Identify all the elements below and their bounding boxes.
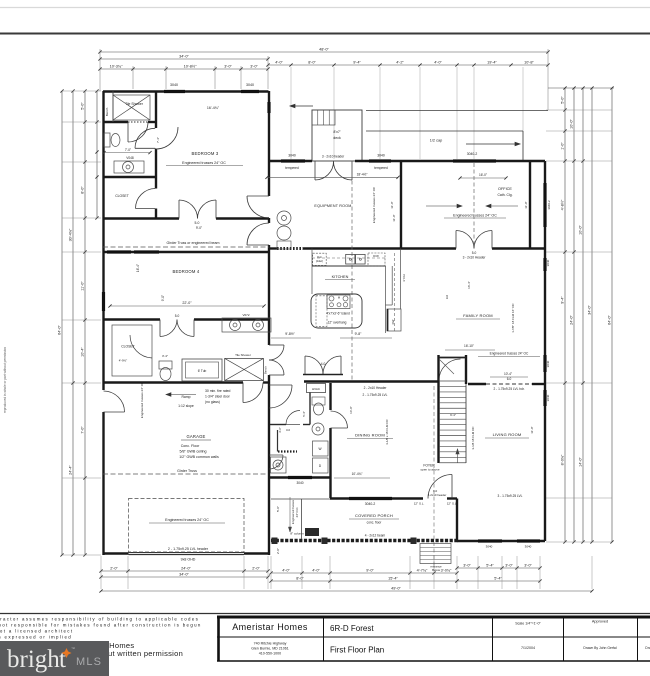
svg-text:open to above: open to above (420, 468, 439, 472)
svg-text:5-0: 5-0 (472, 251, 477, 255)
svg-text:reproduced in whole or part wi: reproduced in whole or part without perm… (3, 347, 7, 413)
svg-text:9'-4": 9'-4" (560, 296, 564, 304)
svg-text:2'-0": 2'-0" (110, 566, 118, 570)
svg-text:Engineered trusses 24" OC: Engineered trusses 24" OC (165, 518, 209, 522)
svg-text:Ameristar Homes: Ameristar Homes (232, 622, 308, 632)
svg-text:4'-2": 4'-2" (396, 60, 404, 64)
svg-text:Ref: Ref (391, 320, 395, 325)
svg-text:9'-4": 9'-4" (353, 60, 361, 64)
svg-text:4'-9½": 4'-9½" (119, 359, 127, 363)
svg-text:D/W: D/W (373, 254, 379, 258)
svg-text:4'-0": 4'-0" (434, 60, 442, 64)
svg-text:OFFICE: OFFICE (498, 187, 512, 191)
svg-text:740 Ritchie Highway: 740 Ritchie Highway (254, 642, 287, 646)
svg-text:3040-2: 3040-2 (365, 502, 376, 506)
svg-text:24'-4": 24'-4" (68, 465, 72, 475)
svg-text:7'-4": 7'-4" (156, 137, 160, 143)
svg-text:MLS: MLS (76, 656, 102, 668)
svg-text:2 - 1.75x9.25 LVL hdr.: 2 - 1.75x9.25 LVL hdr. (493, 387, 524, 391)
svg-text:1-7/8" 18 FLM 16" OC: 1-7/8" 18 FLM 16" OC (511, 302, 515, 332)
svg-text:3'-0": 3'-0" (505, 563, 513, 567)
svg-text:9'-0": 9'-0" (366, 568, 374, 572)
svg-text:3'-0¾": 3'-0¾" (441, 568, 452, 572)
svg-text:2'-0": 2'-0" (276, 548, 280, 554)
svg-text:HVAC: HVAC (312, 387, 321, 391)
svg-text:9'-0": 9'-0" (196, 226, 202, 230)
svg-text:24'-0": 24'-0" (569, 315, 573, 325)
svg-text:3' OH: 3' OH (402, 274, 406, 282)
svg-text:First Floor Plan: First Floor Plan (330, 646, 384, 655)
svg-text:tempered: tempered (374, 166, 388, 170)
svg-text:30 min. fire rated: 30 min. fire rated (205, 389, 231, 393)
svg-text:1'-0": 1'-0" (560, 142, 564, 150)
svg-text:9x8 OHD: 9x8 OHD (181, 558, 196, 562)
svg-text:Engineered trusses 24" OC: Engineered trusses 24" OC (490, 352, 529, 356)
svg-text:V072: V072 (242, 313, 249, 317)
svg-text:11'-0": 11'-0" (80, 281, 84, 291)
svg-text:11'-0": 11'-0" (524, 201, 528, 208)
svg-text:4'-8½": 4'-8½" (560, 199, 564, 210)
svg-text:10'-0": 10'-0" (569, 119, 573, 129)
svg-text:conc. floor: conc. floor (367, 521, 383, 525)
svg-text:5-0: 5-0 (175, 314, 180, 318)
svg-text:34'-0": 34'-0" (587, 305, 591, 315)
svg-text:3040: 3040 (525, 545, 532, 549)
svg-text:24" O.C.: 24" O.C. (295, 506, 299, 517)
svg-text:7'-0": 7'-0" (125, 148, 131, 152)
svg-text:4 - 2x12 beam: 4 - 2x12 beam (365, 534, 386, 538)
svg-text:GARAGE: GARAGE (186, 434, 205, 439)
svg-text:3'-6": 3'-6" (278, 427, 282, 433)
svg-text:5'-0": 5'-0" (276, 506, 280, 512)
svg-text:8'-0": 8'-0" (296, 576, 304, 580)
svg-text:BEDROOM 4: BEDROOM 4 (173, 269, 200, 274)
svg-text:48'-0": 48'-0" (319, 47, 329, 51)
svg-text:KITCHEN: KITCHEN (332, 275, 349, 279)
svg-text:LIVING ROOM: LIVING ROOM (493, 432, 522, 437)
svg-text:64'-0": 64'-0" (57, 325, 61, 335)
svg-text:5'-4": 5'-4" (494, 576, 502, 580)
svg-text:22'-0": 22'-0" (182, 301, 192, 305)
svg-text:M: M (338, 296, 340, 300)
svg-text:2-2x10 header: 2-2x10 header (428, 493, 447, 497)
svg-text:Girder Truss: Girder Truss (177, 469, 197, 473)
svg-text:3040-2: 3040-2 (467, 152, 478, 156)
svg-text:CLOSET: CLOSET (115, 194, 129, 198)
svg-text:Scale 1/4"=1'-0": Scale 1/4"=1'-0" (515, 622, 541, 626)
svg-text:deck: deck (333, 136, 341, 140)
svg-text:4'-0": 4'-0" (312, 568, 320, 572)
svg-text:5'-4": 5'-4" (302, 411, 306, 417)
svg-text:t: t (59, 646, 66, 673)
svg-text:11'-0": 11'-0" (392, 214, 396, 221)
svg-text:tempered: tempered (285, 166, 299, 170)
svg-text:2 - 1.75x9.25 LVL header: 2 - 1.75x9.25 LVL header (168, 547, 209, 551)
svg-text:12" S.L.: 12" S.L. (447, 502, 458, 506)
svg-text:3040-2: 3040-2 (547, 200, 551, 210)
svg-text:s not a licensed architect: s not a licensed architect (0, 629, 73, 634)
svg-text:5'-0": 5'-0" (560, 96, 564, 104)
svg-text:16'-10": 16'-10" (464, 344, 474, 348)
svg-text:3040: 3040 (546, 394, 550, 401)
svg-text:49'-0": 49'-0" (391, 586, 401, 590)
svg-text:EQUIPMENT ROOM: EQUIPMENT ROOM (314, 204, 351, 208)
svg-text:COVERED PORCH: COVERED PORCH (355, 513, 393, 518)
svg-text:14'-0": 14'-0" (578, 457, 582, 467)
svg-text:3040: 3040 (170, 83, 178, 87)
svg-text:3'-0": 3'-0" (524, 563, 532, 567)
svg-text:16'-4": 16'-4" (136, 264, 140, 272)
svg-text:9'-0": 9'-0" (161, 295, 165, 301)
svg-text:10'-8": 10'-8" (524, 60, 534, 64)
svg-text:3-1/8 18 FLM OC: 3-1/8 18 FLM OC (471, 426, 475, 450)
svg-text:10'-4¾": 10'-4¾" (352, 472, 363, 476)
svg-text:10'-8½": 10'-8½" (184, 64, 197, 68)
svg-text:11'-0": 11'-0" (530, 426, 534, 433)
svg-text:10'-4": 10'-4" (504, 372, 512, 376)
svg-text:24'-0": 24'-0" (181, 566, 191, 570)
svg-text:8'-0": 8'-0" (308, 60, 316, 64)
svg-text:12" S.L.: 12" S.L. (414, 502, 425, 506)
svg-text:Engineered trusses 24" OC: Engineered trusses 24" OC (182, 161, 226, 165)
svg-text:Conc. Floor: Conc. Floor (181, 444, 200, 448)
svg-text:4'-7¾": 4'-7¾" (417, 568, 428, 572)
svg-text:Dra: Dra (645, 646, 650, 650)
svg-text:64'-0": 64'-0" (607, 315, 611, 325)
svg-text:11'-0": 11'-0" (390, 201, 394, 208)
svg-text:Bench: Bench (105, 107, 109, 116)
svg-text:Engineered trusses 24" OC: Engineered trusses 24" OC (140, 381, 144, 418)
svg-text:18'-4½": 18'-4½" (357, 173, 368, 177)
svg-text:3'-0": 3'-0" (463, 563, 471, 567)
svg-text:9'-8½": 9'-8½" (285, 332, 295, 336)
svg-text:15'-4": 15'-4" (388, 576, 398, 580)
svg-text:™: ™ (71, 646, 75, 651)
svg-text:6-0: 6-0 (507, 377, 512, 381)
svg-text:3040: 3040 (486, 545, 493, 549)
svg-text:8'x7': 8'x7' (333, 130, 340, 134)
svg-text:7/1/2004: 7/1/2004 (521, 646, 535, 650)
svg-text:Ovn: Ovn (317, 255, 323, 259)
svg-text:y is expressed or implied: y is expressed or implied (0, 635, 72, 640)
svg-text:Below: Below (432, 568, 441, 572)
svg-text:16'-4¾": 16'-4¾" (207, 106, 220, 110)
svg-text:Drawn By John Gerfal: Drawn By John Gerfal (583, 646, 616, 650)
svg-text:V048: V048 (126, 156, 134, 160)
svg-text:4-0: 4-0 (321, 362, 326, 366)
svg-text:5'-0": 5'-0" (80, 102, 84, 110)
svg-text:ontractor assumes responsibili: ontractor assumes responsibility of buil… (0, 617, 199, 622)
svg-text:2'-0": 2'-0" (252, 566, 260, 570)
svg-text:Engineered trusses 24" OC: Engineered trusses 24" OC (453, 214, 497, 218)
svg-text:1-3/4" steel door: 1-3/4" steel door (205, 395, 231, 399)
svg-text:10'-3¾": 10'-3¾" (110, 64, 123, 68)
svg-text:5-0: 5-0 (195, 221, 200, 225)
svg-text:3040: 3040 (546, 259, 550, 266)
svg-text:9-0: 9-0 (445, 295, 449, 300)
svg-text:5'-4": 5'-4" (486, 563, 494, 567)
svg-text:BEDROOM 3: BEDROOM 3 (192, 151, 219, 156)
svg-text:410-550-1000: 410-550-1000 (259, 652, 281, 656)
svg-text:6' Tub: 6' Tub (198, 369, 207, 373)
svg-text:8" column: 8" column (290, 532, 304, 536)
svg-text:14'-0": 14'-0" (349, 406, 353, 414)
svg-text:6R-D Forest: 6R-D Forest (330, 624, 374, 633)
svg-text:4'x7'x3'-6" island: 4'x7'x3'-6" island (326, 312, 350, 316)
svg-text:10'-4": 10'-4" (80, 347, 84, 357)
svg-text:10'-0": 10'-0" (578, 225, 582, 235)
svg-text:4'-0": 4'-0" (275, 60, 283, 64)
svg-text:Engineered trusses 24" OC: Engineered trusses 24" OC (372, 186, 376, 223)
svg-text:1:12 slope: 1:12 slope (178, 404, 194, 408)
svg-text:3040: 3040 (546, 360, 550, 367)
svg-text:3040: 3040 (288, 154, 296, 158)
svg-text:Tile Shower: Tile Shower (235, 353, 251, 357)
svg-text:3 - 2x10 Header: 3 - 2x10 Header (463, 256, 487, 260)
svg-text:1/2" GWB common walls: 1/2" GWB common walls (179, 455, 219, 459)
svg-text:2 - 1.75x9.25 LVL: 2 - 1.75x9.25 LVL (363, 393, 388, 397)
svg-text:3040: 3040 (296, 481, 303, 485)
svg-text:3'-0": 3'-0" (250, 64, 258, 68)
svg-text:16'-4": 16'-4" (467, 281, 471, 289)
svg-text:3 - 2x10 header: 3 - 2x10 header (322, 155, 345, 159)
svg-text:5/8" GWB ceiling: 5/8" GWB ceiling (179, 450, 206, 454)
svg-text:7'-0": 7'-0" (80, 426, 84, 434)
svg-text:3-1/8 x 18 FLM OC: 3-1/8 x 18 FLM OC (385, 418, 389, 444)
svg-text:W: W (318, 447, 321, 451)
svg-text:30'-4¾": 30'-4¾" (68, 228, 72, 241)
svg-text:(no glass): (no glass) (205, 400, 220, 404)
svg-text:3040: 3040 (246, 83, 254, 87)
svg-text:12" overhang: 12" overhang (328, 321, 347, 325)
svg-text:3 - 1.75x9.25 LVL: 3 - 1.75x9.25 LVL (498, 494, 523, 498)
svg-text:19'-4": 19'-4" (487, 60, 497, 64)
svg-text:3'-4": 3'-4" (162, 354, 168, 358)
svg-text:is not responsible for mistake: is not responsible for mistakes found af… (0, 623, 202, 628)
svg-text:Ramp: Ramp (181, 395, 190, 399)
svg-text:8'-0¾": 8'-0¾" (560, 454, 564, 465)
svg-text:3-0: 3-0 (286, 428, 290, 432)
svg-text:34'-0": 34'-0" (179, 54, 189, 58)
svg-text:1/2 cap: 1/2 cap (430, 139, 442, 143)
svg-text:2 - 2x10 Header: 2 - 2x10 Header (364, 386, 388, 390)
svg-text:Approved: Approved (592, 620, 608, 624)
svg-text:3040: 3040 (377, 154, 385, 158)
svg-text:8'-0": 8'-0" (80, 186, 84, 194)
svg-text:9'-4": 9'-4" (450, 413, 456, 417)
svg-text:16'-0": 16'-0" (479, 173, 487, 177)
svg-text:Bench: Bench (264, 366, 268, 374)
svg-text:9'-8": 9'-8" (355, 332, 363, 336)
svg-text:Cath. Clg.: Cath. Clg. (497, 193, 512, 197)
svg-text:34'-0": 34'-0" (179, 572, 189, 576)
svg-text:4'-0": 4'-0" (282, 568, 290, 572)
svg-text:DINING ROOM: DINING ROOM (355, 433, 385, 438)
svg-text:(2dwr): (2dwr) (316, 259, 323, 263)
svg-text:Glen Burnie, MD 21061: Glen Burnie, MD 21061 (251, 647, 289, 651)
svg-text:FAMILY ROOM: FAMILY ROOM (463, 313, 493, 318)
svg-text:brigh: brigh (7, 646, 60, 673)
svg-text:Girder Truss or engineered bea: Girder Truss or engineered beam (167, 241, 220, 245)
svg-text:3'-0": 3'-0" (224, 64, 232, 68)
